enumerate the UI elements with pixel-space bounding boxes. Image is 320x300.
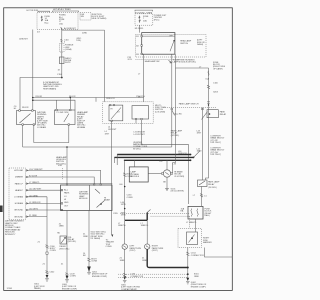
- svg-text:MODULE: MODULE: [79, 198, 88, 200]
- svg-text:B(+): B(+): [64, 189, 68, 191]
- fuse F14 symbol: [41, 16, 43, 21]
- svg-text:18TN: 18TN: [121, 215, 126, 217]
- wire vertical x=32.8 fuse to DRL relay: [32, 30, 34, 111]
- svg-text:HIGH BEAMS): HIGH BEAMS): [43, 87, 57, 90]
- wire module out x=67 to ground: [66, 211, 68, 279]
- svg-text:BEAM: BEAM: [104, 199, 110, 202]
- wire lamp2 drop: [146, 220, 148, 244]
- svg-text:SIDE OF DASH): SIDE OF DASH): [92, 17, 107, 20]
- svg-text:SUPP.: SUPP.: [65, 62, 71, 64]
- node junction dashed: [187, 273, 189, 275]
- connector C110 hash: [60, 39, 62, 42]
- stub line1 left: [116, 155, 118, 166]
- svg-text:18VT/WT: 18VT/WT: [108, 129, 117, 131]
- wire fuse to right (y=30): [62, 29, 105, 32]
- svg-text:PANEL): PANEL): [34, 287, 41, 290]
- svg-text:L507 18BK/WT: L507 18BK/WT: [29, 169, 43, 171]
- wire headlamp switch bottom out x=143.6: [143, 54, 145, 102]
- relay contact module x=67: [60, 236, 67, 244]
- svg-text:18BK: 18BK: [194, 276, 200, 278]
- dashed pair bottom: [118, 273, 188, 275]
- svg-text:(2057): (2057): [152, 250, 158, 252]
- arrow to drl text: [169, 60, 172, 63]
- wire PDC down to headlamp switch: [139, 25, 141, 33]
- pin dimmer bottom: [111, 120, 112, 121]
- svg-text:INTENSITY: INTENSITY: [5, 234, 16, 236]
- wire x=112.3 down to arrow: [111, 121, 113, 235]
- svg-text:18BK: 18BK: [83, 236, 89, 238]
- connector hash x=208.5: [207, 85, 210, 88]
- wire lamp1 to ground: [124, 249, 126, 279]
- svg-text:L7 18BK/YL: L7 18BK/YL: [29, 182, 41, 184]
- pin module r7: [61, 209, 63, 211]
- wire indicator to ground: [166, 177, 168, 188]
- svg-text:CONN: CONN: [127, 197, 133, 199]
- connector hash under relay: [200, 194, 203, 197]
- wire K1-K2 U link: [34, 125, 69, 143]
- svg-text:L3 18RD/OR: L3 18RD/OR: [29, 202, 41, 204]
- pin sub-box 1: [135, 118, 136, 119]
- svg-text:RAIL): RAIL): [205, 214, 210, 217]
- row3 wire: [26, 183, 113, 185]
- svg-text:LAMP MODULE (W/ DRL): LAMP MODULE (W/ DRL): [173, 61, 197, 64]
- svg-text:18BK: 18BK: [120, 260, 126, 262]
- junction block box (dashed): [37, 13, 78, 30]
- bracket hot-in-run: [38, 11, 50, 12]
- pin indicator left: [162, 173, 164, 175]
- lamp outage module box: [129, 167, 148, 182]
- module divider: [88, 185, 90, 211]
- svg-text:(W/ DRL): (W/ DRL): [68, 241, 77, 243]
- connector hash x=47 lower: [46, 271, 49, 274]
- svg-text:LO BEAM: LO BEAM: [14, 196, 23, 199]
- pin K2 top-left: [56, 109, 58, 111]
- wire horizontal y=77.5 to left: [20, 78, 62, 111]
- svg-text:RELAY: RELAY: [220, 113, 227, 116]
- wire switch2 feed x=56.6: [56, 100, 58, 110]
- junction block label box (dashed): [80, 13, 91, 21]
- dashed vert x=62.5: [62, 168, 64, 180]
- wire x=202.5 down: [202, 107, 204, 180]
- svg-text:CONN: CONN: [70, 276, 76, 278]
- svg-text:RD/OR: RD/OR: [36, 96, 43, 98]
- svg-text:SW: SW: [81, 16, 84, 18]
- fuse br sym2: [197, 209, 198, 217]
- svg-text:PO SW OPM: PO SW OPM: [57, 112, 69, 114]
- wire hs right out to x=208.5: [176, 54, 209, 68]
- svg-text:CLUSTER): CLUSTER): [174, 176, 184, 178]
- svg-text:14RD/WT: 14RD/WT: [19, 38, 29, 40]
- svg-text:HEADLP: HEADLP: [15, 189, 24, 192]
- border frame: [4, 8, 233, 291]
- wire r5 ground chain x=47: [46, 197, 48, 278]
- wire circle pin right riser: [172, 163, 174, 173]
- DRL module box: [61, 185, 113, 211]
- pin module r6: [61, 203, 63, 205]
- wire relay to fusebox: [201, 187, 203, 207]
- svg-text:18VT: 18VT: [105, 134, 111, 136]
- relay K2 box: [55, 110, 76, 125]
- svg-text:GROUND: GROUND: [14, 210, 23, 212]
- svg-text:B(+) RD: B(+) RD: [175, 113, 183, 115]
- bus line1 y=155 (bold): [117, 154, 190, 156]
- svg-text:DASH): DASH): [197, 43, 204, 46]
- wire x=124.7 park feed down to lamp1: [124, 160, 126, 220]
- wire W1 y=96.6: [33, 97, 144, 99]
- svg-text:12345: 12345: [7, 288, 13, 290]
- connector hash at fuse output: [61, 27, 63, 29]
- bracket hot right: [135, 10, 153, 11]
- wire subbox pin1 to line3: [142, 120, 189, 204]
- svg-text:L7 18BK/YL: L7 18BK/YL: [186, 222, 198, 224]
- svg-text:18BK/YL: 18BK/YL: [118, 225, 127, 227]
- PDC fuse box right (dashed): [135, 14, 153, 25]
- svg-text:DIMMER: DIMMER: [15, 177, 24, 179]
- svg-text:(PDC): (PDC): [154, 19, 160, 21]
- svg-text:18BK: 18BK: [59, 226, 65, 228]
- ground G100 symbol: [66, 276, 69, 279]
- pin hs-2: [141, 45, 143, 47]
- svg-text:L43 18RD: L43 18RD: [29, 195, 39, 197]
- bus line2 y=158 (bold): [114, 156, 193, 158]
- indicator lamp circle: [163, 170, 170, 177]
- turn signal sub-box: [132, 106, 149, 119]
- row5 wire: [26, 196, 47, 198]
- pin on x=202.5: [202, 108, 204, 110]
- svg-text:(2057): (2057): [130, 250, 136, 252]
- node splice at x=61.8 y=77.5: [61, 77, 63, 79]
- connector hash on x=89: [87, 258, 90, 262]
- svg-text:MARKER: MARKER: [203, 241, 212, 244]
- arrow end x=112.3: [111, 235, 113, 238]
- svg-text:RD/OR: RD/OR: [22, 107, 29, 109]
- wire W2 y=99.3: [33, 100, 75, 110]
- pin indicator right: [171, 173, 173, 175]
- svg-text:M1 20RD: M1 20RD: [135, 28, 144, 30]
- connector hash x=47 upper: [46, 245, 49, 248]
- svg-text:CONN: CONN: [50, 250, 56, 252]
- bold L feed lamps: [125, 213, 148, 221]
- pin K2 top-right: [70, 109, 72, 111]
- node at 67,147: [66, 146, 68, 148]
- svg-text:DRL ONLY): DRL ONLY): [211, 154, 222, 156]
- pin module top r1: [100, 184, 102, 186]
- contact diagonal on x=171.8: [172, 110, 175, 115]
- svg-text:HOT IN RUN: HOT IN RUN: [27, 10, 39, 12]
- ground G301 symbol: [46, 275, 49, 278]
- relay K1 (DRL relay) box: [17, 111, 36, 125]
- lamp L2 right park/turn: [145, 244, 150, 249]
- wire diagonal arrow to right stack: [194, 151, 201, 158]
- svg-text:18BK: 18BK: [142, 260, 148, 262]
- multifunction switch enclosure (dashed): [103, 102, 154, 124]
- pin module r4: [61, 189, 63, 191]
- fuse br sym1: [191, 209, 192, 217]
- relay box right mid: [198, 180, 208, 187]
- svg-text:ENGINE COMP): ENGINE COMP): [62, 288, 77, 290]
- row4 wire: [26, 189, 62, 191]
- svg-text:HTR: HTR: [58, 165, 63, 167]
- row3 arrow: [26, 183, 28, 185]
- left connector column (dashed): [9, 168, 26, 220]
- svg-text:HI BEAM: HI BEAM: [15, 202, 24, 205]
- right lamp inner box: [187, 232, 198, 245]
- svg-text:(W/O DRL): (W/O DRL): [59, 248, 69, 250]
- pin hs-3: [141, 53, 143, 55]
- pin K1 bottom-2: [33, 124, 35, 126]
- fuse box bottom right: [188, 206, 203, 219]
- svg-text:18RD/OR: 18RD/OR: [106, 98, 115, 100]
- page background: [0, 0, 237, 300]
- svg-text:HI BEAM: HI BEAM: [77, 126, 86, 129]
- node splice2 x=124.7: [124, 208, 126, 210]
- wire lamp1 drop: [124, 220, 126, 244]
- wire x=176.2 riser: [173, 68, 176, 163]
- bus line3 y=161 (bold): [124, 159, 191, 161]
- pin dimmer top-2: [113, 104, 114, 105]
- pin dimmer top-1: [110, 104, 111, 105]
- svg-text:DRL ONLY): DRL ONLY): [211, 142, 222, 144]
- fusible link (dashed box): [59, 44, 64, 53]
- svg-text:CONNECTOR: CONNECTOR: [191, 255, 204, 257]
- wire hs out x=171.8: [171, 54, 173, 147]
- dimmer switch diagonal: [111, 108, 121, 120]
- row5 arrow: [26, 196, 28, 198]
- wire x=208.5 down: [206, 68, 209, 180]
- svg-text:L44 18VT/WT: L44 18VT/WT: [29, 189, 42, 191]
- svg-text:L4 18VT/WT: L4 18VT/WT: [134, 134, 146, 136]
- node bus ends: [190, 154, 192, 156]
- svg-text:CONN: CONN: [106, 246, 112, 248]
- row6 wire: [26, 202, 62, 204]
- row8 wire: [26, 216, 47, 218]
- wire fusebox down: [195, 219, 197, 232]
- wire stub line3 to outage box: [134, 160, 136, 167]
- connector hash right stack: [186, 252, 189, 256]
- svg-text:Z1 18BK: Z1 18BK: [29, 215, 37, 217]
- module switch symbol: [95, 189, 105, 208]
- svg-text:18RD: 18RD: [197, 151, 203, 153]
- svg-text:PARK: PARK: [64, 192, 70, 195]
- row6 arrow: [26, 203, 28, 205]
- right lamp enclosure (dashed): [178, 229, 202, 248]
- comp ticks x=208.5: [207, 102, 210, 104]
- svg-text:(W/ DRL): (W/ DRL): [171, 135, 180, 137]
- connector hash on x=67: [65, 273, 68, 276]
- row4 arrow: [26, 189, 28, 191]
- svg-text:20RD: 20RD: [82, 33, 88, 35]
- row7 arrow: [26, 209, 28, 211]
- svg-text:B(+): B(+): [45, 22, 49, 24]
- page edge mark: [0, 206, 3, 213]
- svg-text:A PILLAR: A PILLAR: [14, 169, 23, 172]
- splice square x=47: [46, 252, 48, 254]
- connector hash lamp1: [123, 273, 126, 277]
- ground indicator symbol: [165, 188, 169, 190]
- svg-text:LO: LO: [64, 196, 67, 198]
- pin hs-1: [141, 35, 143, 37]
- inner box corner bottom right: [205, 248, 233, 258]
- svg-text:PARK LAMP SWITCH: PARK LAMP SWITCH: [179, 103, 199, 106]
- row1 wire: [26, 170, 101, 185]
- wire outage box to indicator: [148, 173, 161, 175]
- svg-text:LO BEAM: LO BEAM: [37, 126, 46, 129]
- svg-text:GND: GND: [64, 202, 69, 204]
- pin sub-box 2: [141, 118, 142, 119]
- svg-text:RELAY: RELAY: [208, 183, 215, 186]
- ground G300 symbol: [123, 277, 126, 280]
- svg-text:HEADLAMP SW: HEADLAMP SW: [145, 60, 160, 63]
- wire vertical x=104.5 down to dimmer switch: [104, 30, 106, 102]
- svg-text:SWITCH: SWITCH: [180, 43, 188, 45]
- fuse sym on x=208.5: [208, 71, 209, 76]
- svg-text:W/ DRL): W/ DRL): [133, 148, 141, 150]
- row2 wire: [26, 177, 95, 185]
- wire module feed x=67: [66, 147, 68, 185]
- pin on x=171.8: [171, 108, 173, 110]
- lamp L1 left park/turn: [122, 244, 127, 249]
- wire K2 feed2 x=70.3: [69, 98, 71, 111]
- svg-text:OF DASH): OF DASH): [91, 237, 101, 240]
- svg-text:L60 18TN: L60 18TN: [29, 209, 38, 211]
- svg-text:18TN: 18TN: [121, 204, 126, 206]
- svg-text:(W/ DRL): (W/ DRL): [208, 187, 217, 189]
- svg-text:CONN: CONN: [91, 261, 97, 263]
- pin K2 bottom: [68, 124, 70, 126]
- headlamp switch enclosure (dashed): [135, 35, 206, 58]
- wire stub W1 to mf box: [95, 98, 97, 102]
- pin K1 top-right: [32, 110, 33, 112]
- svg-text:COMPARTMENT): COMPARTMENT): [121, 288, 137, 291]
- svg-text:DRL): DRL): [77, 40, 82, 42]
- connector hash x=124.7: [123, 173, 126, 177]
- svg-text:(COLUMN): (COLUMN): [155, 111, 165, 113]
- svg-text:18RD/OR: 18RD/OR: [178, 153, 187, 155]
- connector box right w/ dot: [207, 110, 218, 118]
- ground G202 arrow: [87, 267, 91, 272]
- node W1 left: [32, 97, 34, 99]
- switch internal line: [142, 35, 175, 37]
- wire y=147 bus across: [23, 146, 172, 148]
- svg-text:E2 20OR: E2 20OR: [29, 176, 38, 178]
- ground G302 symbol: [186, 278, 189, 281]
- row8 arrow: [26, 216, 28, 218]
- dimmer switch box: [109, 105, 123, 121]
- stub line2 left: [113, 157, 115, 163]
- contact diagonal on x=202.5: [202, 112, 208, 120]
- svg-text:LO: LO: [117, 111, 120, 113]
- node W1 at 70.3: [70, 97, 72, 99]
- pin module top x67: [66, 184, 68, 186]
- wire indicator feed from line3: [166, 160, 168, 170]
- dashed ext bottom: [135, 58, 180, 60]
- row2 arrow: [26, 176, 28, 178]
- radio noise suppressor box: [59, 57, 64, 64]
- switch wiper: [173, 40, 174, 41]
- svg-text:OF DASH): OF DASH): [213, 67, 223, 70]
- pin module top r2: [93, 184, 95, 186]
- svg-text:ENGINE COMP): ENGINE COMP): [92, 276, 107, 278]
- wire module out x=89 to ground: [88, 211, 90, 273]
- svg-text:(IN CLUSTER): (IN CLUSTER): [171, 191, 185, 193]
- row1 arrow: [26, 170, 28, 172]
- node W2 left: [32, 99, 34, 101]
- relay K1 contact diagonal: [20, 114, 31, 124]
- headlamp switch box: [142, 33, 175, 55]
- dashed boundary y=107.4: [163, 106, 216, 108]
- svg-text:A4 14RD/WT: A4 14RD/WT: [64, 27, 77, 30]
- svg-text:ENGINE COMP): ENGINE COMP): [191, 286, 206, 288]
- arrow diag at x=147.2 top: [147, 210, 150, 213]
- wire vertical x=61.8 chain down: [61, 30, 63, 77]
- wire lamp2 bold L to right: [147, 249, 188, 267]
- wire K1 pin to y=147 bus: [22, 125, 24, 147]
- bracket hot-at-all-times left: [53, 11, 79, 12]
- svg-text:PARK LP: PARK LP: [15, 182, 24, 185]
- fuse F? right symbol: [139, 16, 141, 23]
- node junction bold: [187, 267, 189, 269]
- wire right stack to ground: [187, 248, 189, 281]
- dashed pair mid right: [120, 212, 190, 214]
- svg-text:18BK/YL: 18BK/YL: [141, 225, 150, 227]
- pin K1 bottom-1: [22, 124, 24, 126]
- row7 wire: [26, 209, 62, 211]
- wire subbox pin2 stub: [135, 120, 137, 124]
- relay K2 contact diagonal: [64, 114, 69, 122]
- node splice x=124.7: [124, 186, 126, 188]
- svg-text:(14GA): (14GA): [65, 48, 72, 51]
- svg-text:GROUND: GROUND: [14, 216, 23, 218]
- svg-text:CONN: CONN: [127, 176, 133, 178]
- svg-text:18VT: 18VT: [197, 133, 203, 135]
- pin K1 top-left: [19, 110, 21, 112]
